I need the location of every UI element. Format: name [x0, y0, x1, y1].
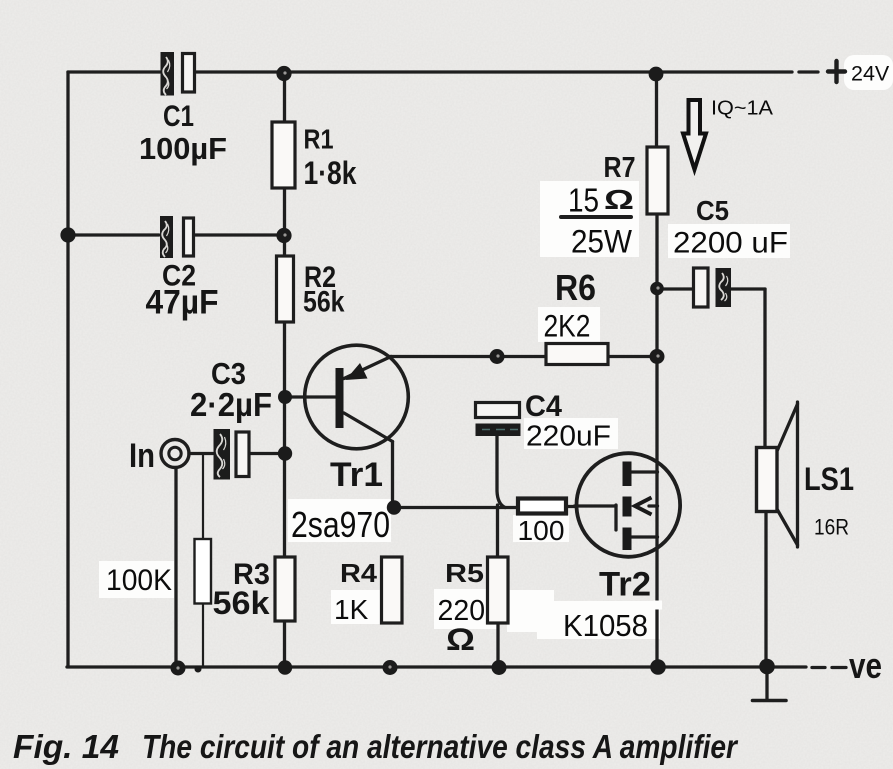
svg-text:100K: 100K — [106, 564, 172, 597]
svg-text:220uF: 220uF — [526, 421, 611, 453]
svg-text:25W: 25W — [571, 224, 632, 260]
svg-text:24V: 24V — [851, 62, 890, 86]
svg-text:R5: R5 — [445, 558, 484, 588]
svg-text:R6: R6 — [555, 267, 596, 308]
svg-text:2K2: 2K2 — [544, 308, 591, 344]
svg-text:ve: ve — [849, 645, 882, 686]
svg-text:LS1: LS1 — [804, 461, 854, 497]
svg-text:K1058: K1058 — [563, 608, 648, 643]
svg-text:Fig. 14: Fig. 14 — [13, 728, 119, 765]
svg-text:Tr1: Tr1 — [330, 456, 383, 494]
svg-text:2200 uF: 2200 uF — [673, 227, 788, 260]
svg-text:R1: R1 — [304, 124, 334, 155]
svg-text:Ω: Ω — [604, 184, 634, 215]
svg-text:R4: R4 — [340, 558, 378, 588]
svg-text:100µF: 100µF — [139, 131, 227, 166]
svg-text:C4: C4 — [525, 390, 562, 423]
svg-text:The circuit of an alternative: The circuit of an alternative class A am… — [142, 728, 739, 765]
svg-text:C5: C5 — [696, 195, 729, 226]
svg-text:16R: 16R — [814, 515, 849, 540]
svg-text:1·8k: 1·8k — [304, 155, 357, 191]
svg-text:15: 15 — [568, 182, 599, 219]
svg-text:Tr2: Tr2 — [599, 566, 651, 604]
svg-text:56k: 56k — [303, 286, 345, 319]
svg-text:47µF: 47µF — [146, 284, 219, 322]
svg-text:IQ~1A: IQ~1A — [711, 98, 774, 120]
svg-text:220: 220 — [438, 595, 486, 627]
svg-text:2sa970: 2sa970 — [291, 504, 390, 545]
svg-text:56k: 56k — [213, 585, 270, 621]
svg-text:100: 100 — [518, 515, 565, 546]
svg-text:1K: 1K — [334, 594, 369, 625]
svg-text:In: In — [129, 437, 155, 475]
svg-text:R7: R7 — [604, 152, 636, 184]
svg-text:C1: C1 — [163, 100, 194, 133]
svg-text:2·2µF: 2·2µF — [190, 386, 272, 423]
